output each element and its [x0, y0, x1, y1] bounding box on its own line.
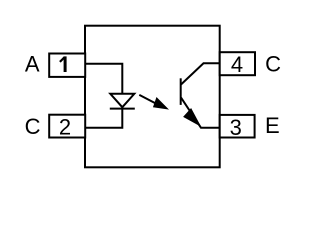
svg-text:C: C — [265, 52, 281, 77]
light arrow head — [154, 98, 168, 109]
svg-text:2: 2 — [59, 115, 71, 140]
pin 1 number — [60, 56, 65, 72]
wire LED cathode to pin2 — [85, 109, 122, 128]
svg-text:E: E — [265, 113, 280, 138]
pin 3 box — [220, 115, 255, 138]
svg-text:A: A — [25, 52, 40, 77]
LED D1 cathode bar — [110, 108, 135, 110]
emitter arrow head — [184, 109, 200, 126]
transistor collector wire to pin 4 — [181, 63, 220, 84]
pin 2 box — [49, 115, 85, 138]
wire pin1 to LED anode — [85, 64, 122, 94]
svg-text:4: 4 — [231, 52, 243, 77]
pin 4 box — [220, 52, 255, 75]
svg-text:3: 3 — [230, 115, 242, 140]
package body U1 — [85, 26, 220, 168]
pin 1 box — [49, 54, 85, 77]
svg-text:C: C — [25, 114, 41, 139]
transistor emitter wire to pin 3 — [181, 98, 220, 128]
LED D1 triangle — [110, 94, 134, 107]
light arrow shaft — [139, 95, 158, 105]
transistor Q1 base line — [180, 78, 182, 105]
